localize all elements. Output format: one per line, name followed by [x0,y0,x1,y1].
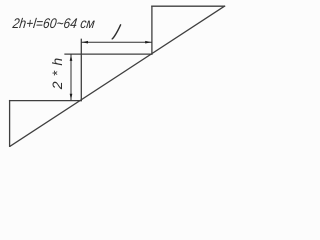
svg-text:2*h: 2*h [49,53,65,91]
svg-text:2h+l=60~64 см: 2h+l=60~64 см [11,15,96,31]
